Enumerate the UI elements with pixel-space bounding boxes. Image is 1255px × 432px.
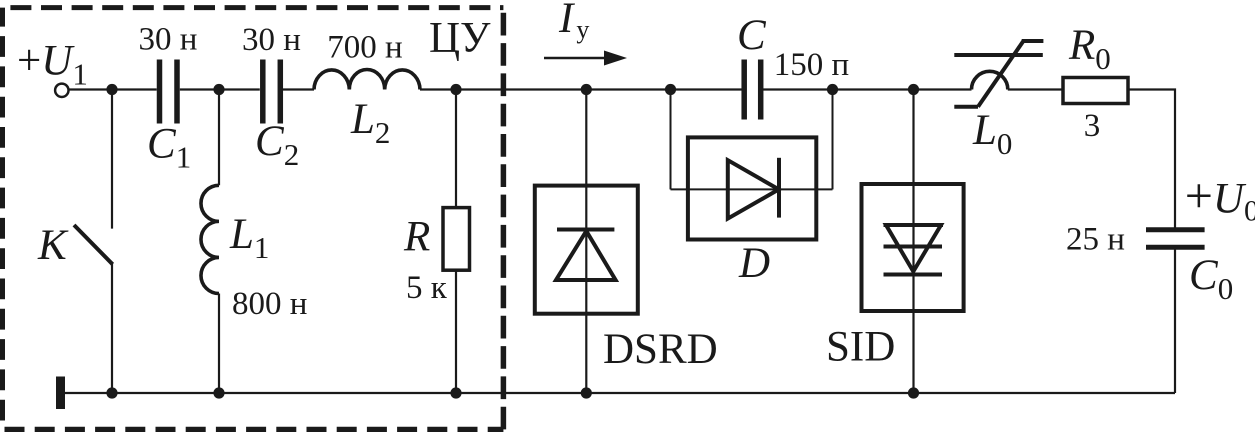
- capacitor C1 plates: [160, 60, 178, 124]
- diode SID symbol: middle bar: [884, 245, 943, 249]
- svg-text:R0: R0: [1068, 22, 1111, 76]
- diode SID box: [862, 184, 964, 311]
- terminal +U1: [55, 84, 68, 97]
- inductor L0 diagonal stroke: [978, 40, 1024, 107]
- dashed box ЦУ: top side: [3, 5, 504, 10]
- node: top of L1 branch: [213, 84, 224, 95]
- diode DSRD: lower wire: [585, 314, 587, 393]
- inductor L1: upper wire: [218, 90, 220, 186]
- svg-text:700 н: 700 н: [327, 30, 402, 66]
- resistor R: lower wire: [455, 270, 457, 393]
- dashed box ЦУ: left side: [0, 8, 5, 430]
- node: top of DSRD branch: [581, 84, 592, 95]
- capacitor C2 plates: [263, 60, 281, 124]
- capacitor C0 plates: [1146, 230, 1205, 248]
- wire: C2 to L2: [283, 88, 314, 90]
- wire: R0 to right corner and down: [1128, 90, 1175, 230]
- node: R at rail: [450, 387, 461, 398]
- capacitor C plates: [744, 60, 761, 120]
- svg-text:+U0: +U0: [1185, 168, 1255, 228]
- diode D symbol: cathode bar: [777, 158, 781, 218]
- svg-text:SID: SID: [826, 324, 895, 371]
- svg-text:ЦУ: ЦУ: [429, 15, 491, 62]
- inductor L1 (three humps bulging left): [201, 185, 219, 293]
- svg-text:3: 3: [1084, 108, 1101, 144]
- wire: C0 to rail: [1174, 247, 1176, 393]
- inductor L0 bottom hook: [954, 105, 978, 109]
- svg-text:25 н: 25 н: [1066, 222, 1125, 258]
- svg-text:C0: C0: [1189, 252, 1233, 306]
- inductor L0 hump: [972, 71, 1008, 89]
- node: DSRD at rail: [581, 387, 592, 398]
- svg-text:DSRD: DSRD: [603, 326, 718, 373]
- svg-text:D: D: [738, 240, 770, 287]
- svg-text:C2: C2: [255, 118, 299, 172]
- svg-text:800 н: 800 н: [232, 286, 307, 322]
- inductor L1: lower wire: [218, 294, 220, 394]
- svg-text:L0: L0: [972, 107, 1012, 161]
- svg-text:K: K: [37, 222, 69, 269]
- svg-text:5 к: 5 к: [406, 270, 448, 306]
- node: K at rail: [106, 387, 117, 398]
- current arrow Iy: head: [604, 51, 627, 66]
- node: right of C / D branch: [827, 84, 838, 95]
- node: L1 at rail: [213, 387, 224, 398]
- svg-text:C1: C1: [147, 121, 191, 175]
- diode DSRD: wire through box: [585, 186, 587, 314]
- svg-text:30 н: 30 н: [139, 22, 198, 58]
- inductor L0 core line: [954, 53, 1043, 57]
- diode DSRD box: [535, 186, 638, 314]
- diode DSRD symbol: cathode bar: [557, 228, 614, 232]
- switch K: blade: [74, 225, 113, 264]
- current arrow Iy: shaft: [544, 57, 607, 60]
- svg-text:L2: L2: [350, 96, 390, 150]
- resistor R: upper wire: [455, 90, 457, 208]
- svg-text:Iу: Iу: [558, 0, 589, 44]
- diode D: left drop wire: [670, 90, 672, 190]
- dashed box ЦУ: bottom side: [3, 427, 504, 432]
- wire: L2 to C capacitor: [420, 88, 742, 90]
- wire: C to L0: [763, 88, 972, 90]
- svg-text:R: R: [403, 214, 430, 261]
- diode DSRD: upper wire: [585, 90, 587, 186]
- diode SID: lower wire: [912, 311, 914, 393]
- bottom rail wire: [65, 392, 1175, 394]
- node: top of SID branch: [908, 84, 919, 95]
- node: top of R branch: [450, 84, 461, 95]
- diode D: right drop wire: [832, 90, 834, 190]
- diode DSRD symbol: triangle: [556, 231, 616, 280]
- node: top of K branch: [106, 84, 117, 95]
- diode D: horizontal wire through box: [671, 188, 833, 190]
- svg-text:30 н: 30 н: [242, 22, 301, 58]
- svg-text:C: C: [737, 12, 767, 59]
- svg-text:L1: L1: [229, 211, 269, 265]
- wire: terminal to C1: [69, 88, 157, 90]
- switch K: upper wire: [111, 90, 113, 229]
- svg-text:+U1: +U1: [17, 38, 88, 92]
- inductor L0 top hook: [1022, 39, 1044, 43]
- diode SID: wire through box: [912, 184, 914, 311]
- diode SID symbol: triangle: [886, 225, 941, 272]
- node: left of C / D branch: [665, 84, 676, 95]
- diode D box: [688, 137, 816, 239]
- resistor R body: [443, 208, 470, 271]
- dashed box ЦУ: right side: [501, 8, 507, 430]
- node: SID at rail: [908, 387, 919, 398]
- switch K: lower wire: [111, 262, 113, 393]
- diode SID symbol: anode bar: [884, 223, 944, 227]
- diode D symbol: triangle: [728, 160, 779, 218]
- resistor R0 body: [1063, 78, 1128, 104]
- wire: L0 to R0: [1008, 88, 1063, 90]
- inductor L2 (three humps): [314, 69, 420, 89]
- diode SID: upper wire: [912, 90, 914, 185]
- svg-text:150 п: 150 п: [774, 47, 849, 83]
- diode SID symbol: cathode bar: [884, 273, 943, 277]
- ground terminal bar: [56, 377, 65, 410]
- wire: C1 to C2: [180, 88, 260, 90]
